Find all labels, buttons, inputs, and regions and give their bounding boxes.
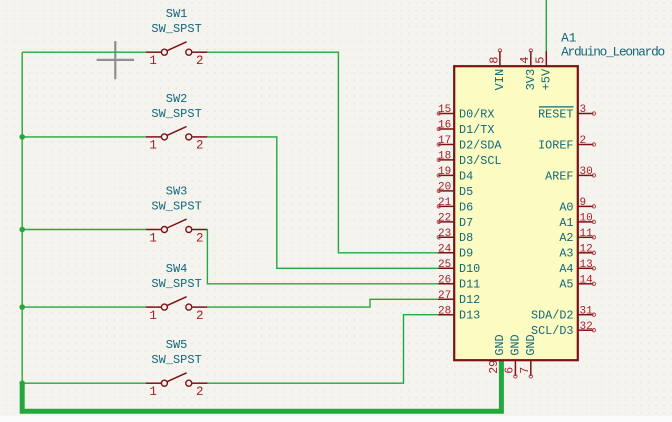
SW5 pin 1 [146,382,162,384]
svg-text:SW1: SW1 [166,7,188,21]
wire SW2 pin1 to left bus [22,136,146,138]
svg-text:29: 29 [488,360,501,374]
svg-text:2: 2 [196,231,204,245]
pin 6 GND (bottom) [504,334,523,378]
svg-text:Arduino_Leonardo: Arduino_Leonardo [561,44,664,59]
svg-text:SW5: SW5 [166,338,188,352]
svg-text:D2/SDA: D2/SDA [459,138,502,152]
svg-text:18: 18 [438,151,451,163]
svg-text:D7: D7 [459,216,473,230]
svg-text:30: 30 [580,166,593,178]
wire SW3 pin1 to left bus [22,229,146,231]
svg-text:16: 16 [438,120,451,132]
svg-text:SW_SPST: SW_SPST [151,353,201,367]
svg-text:7: 7 [519,367,532,374]
switch SW1 SW_SPST [146,7,208,68]
svg-text:32: 32 [580,321,593,333]
pin 28 D13 (left) [438,305,480,322]
svg-text:3V3: 3V3 [524,69,538,91]
svg-text:24: 24 [438,244,452,256]
svg-text:IOREF: IOREF [538,138,573,152]
svg-text:RESET: RESET [538,107,573,121]
svg-text:SW_SPST: SW_SPST [151,277,201,291]
wire SW2 pin2 to D10 [207,137,438,268]
SW4 pin 2 [186,304,192,310]
svg-text:20: 20 [438,182,451,194]
pin 27 D12 (left) [438,290,480,307]
svg-text:SW2: SW2 [166,92,188,106]
pin 23 D8 (left) [437,228,473,245]
svg-text:D3/SCL: D3/SCL [459,154,501,168]
svg-text:8: 8 [487,57,501,64]
svg-text:5: 5 [534,57,548,64]
SW1 lever [167,42,187,51]
svg-text:19: 19 [438,166,451,178]
svg-text:1: 1 [149,139,157,153]
junction at bus / SW2 [19,134,25,140]
pin 25 D10 (left) [438,259,480,276]
svg-text:2: 2 [196,385,204,399]
SW1 pin 2 [186,49,192,55]
svg-text:31: 31 [580,305,594,317]
pin 19 D4 (left) [437,166,473,183]
svg-text:D10: D10 [459,262,480,276]
svg-text:D5: D5 [459,185,473,199]
pin 7 GND (bottom) [519,334,538,378]
svg-text:D11: D11 [459,278,480,292]
svg-text:2: 2 [580,135,587,147]
svg-text:A3: A3 [559,247,573,261]
pin 3 RESET (right) [538,104,596,121]
pin 12 A3 (right) [559,244,595,261]
svg-text:22: 22 [438,213,451,225]
thick GND wire pin29 to left bus [22,361,501,411]
pin 16 D1/TX (left) [437,120,494,137]
switch SW2 SW_SPST [146,92,208,153]
pin 9 A0 (right) [559,197,595,214]
wire SW5 pin1 to left bus [22,382,146,384]
pin 10 A1 (right) [559,213,595,230]
SW3 pin 1 [146,229,162,231]
svg-text:2: 2 [196,54,204,68]
svg-text:D13: D13 [459,309,480,323]
pin 31 SDA/D2 (right) [531,305,596,322]
svg-text:SW3: SW3 [166,185,188,199]
pin 17 D2/SDA (left) [437,135,502,152]
svg-text:1: 1 [149,385,157,399]
wire SW4 pin1 to left bus [22,306,146,308]
svg-text:14: 14 [580,275,594,287]
svg-text:AREF: AREF [545,169,573,183]
junction at bus / SW3 [19,227,25,233]
svg-text:12: 12 [580,244,593,256]
svg-text:A4: A4 [559,262,573,276]
svg-text:10: 10 [580,213,593,225]
svg-text:D6: D6 [459,200,473,214]
svg-text:A1: A1 [559,216,573,230]
svg-text:D1/TX: D1/TX [459,123,494,137]
SW5 lever [167,373,187,382]
pin 30 AREF (right) [545,166,595,183]
SW3 lever [167,219,187,228]
pin 24 D9 (left) [438,244,473,261]
svg-text:D4: D4 [459,169,473,183]
pin 13 A4 (right) [559,259,595,276]
wire +5V from top edge to pin 5 [545,0,547,51]
pin 11 A2 (right) [559,228,595,245]
SW2 lever [167,127,187,136]
pin 20 D5 (left) [437,182,473,199]
pin 15 D0/RX (left) [437,104,494,121]
wire SW5 pin2 to D13 [207,315,438,384]
svg-text:11: 11 [580,228,594,240]
SW4 lever [167,297,187,306]
svg-text:GND: GND [524,334,538,355]
pin 18 D3/SCL (left) [437,151,501,168]
junction at bus / SW4 [19,304,25,310]
svg-text:13: 13 [580,259,593,271]
svg-text:1: 1 [149,309,157,323]
SW1 pin 1 [146,51,162,53]
reference A1 [561,31,577,46]
pin 8 VIN (top) [487,49,507,91]
svg-text:1: 1 [149,231,157,245]
switch SW3 SW_SPST [146,185,208,246]
cursor crosshair [97,41,135,79]
svg-text:D0/RX: D0/RX [459,107,494,121]
pin 2 IOREF (right) [538,135,596,152]
svg-text:17: 17 [438,135,451,147]
switch SW5 SW_SPST [146,338,208,399]
svg-text:21: 21 [438,197,452,209]
pin 14 A5 (right) [559,275,595,292]
pin 5 +5V (top) [534,51,554,90]
svg-text:6: 6 [504,367,517,374]
svg-text:1: 1 [149,54,157,68]
svg-text:A5: A5 [559,278,573,292]
SW5 pin 2 [186,380,192,386]
svg-text:26: 26 [438,275,451,287]
svg-text:28: 28 [438,305,451,317]
svg-text:SW_SPST: SW_SPST [151,200,201,214]
wire SW1 pin2 to D9 [207,52,438,253]
svg-text:GND: GND [509,334,523,355]
svg-text:GND: GND [493,334,507,355]
pin 22 D7 (left) [437,213,473,230]
value Arduino_Leonardo [561,44,664,59]
wire left bus vertical SW1..SW5 [21,52,23,383]
pin 26 D11 (left) [438,275,480,292]
wire SW1 pin1 to left bus [22,51,146,53]
svg-text:+5V: +5V [539,68,553,90]
SW2 pin 2 [186,134,192,140]
svg-text:D9: D9 [459,247,473,261]
svg-text:27: 27 [438,290,451,302]
svg-text:15: 15 [438,104,451,116]
svg-text:2: 2 [196,139,204,153]
wire SW3 pin2 to D11 [207,230,438,284]
svg-text:A0: A0 [559,200,573,214]
svg-text:23: 23 [438,228,451,240]
SW4 pin 1 [146,306,162,308]
pin 21 D6 (left) [437,197,473,214]
svg-text:SW_SPST: SW_SPST [151,107,201,121]
switch SW4 SW_SPST [146,262,208,323]
svg-text:9: 9 [580,197,587,209]
svg-text:SW_SPST: SW_SPST [151,22,201,36]
svg-text:A2: A2 [559,231,573,245]
IC A1 Arduino_Leonardo body [454,66,578,360]
junction at bus / SW5 [19,380,25,386]
svg-text:VIN: VIN [493,69,507,91]
svg-text:3: 3 [580,104,587,116]
svg-text:SW4: SW4 [166,262,188,276]
SW3 pin 2 [186,227,192,233]
svg-text:4: 4 [518,57,532,64]
pin 29 GND (bottom) [488,334,507,373]
pin 32 SCL/D3 (right) [531,321,596,338]
svg-text:D8: D8 [459,231,473,245]
svg-text:2: 2 [196,309,204,323]
wire SW4 pin2 to D12 [207,299,438,307]
svg-text:25: 25 [438,259,451,271]
pin 4 3V3 (top) [518,49,538,91]
SW2 pin 1 [146,136,162,138]
svg-text:D12: D12 [459,293,480,307]
svg-text:SDA/D2: SDA/D2 [531,309,573,323]
